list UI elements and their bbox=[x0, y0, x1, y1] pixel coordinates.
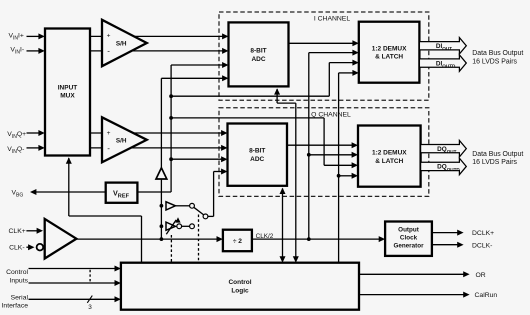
S/H amplifier Q bbox=[102, 117, 147, 162]
svg-text:CLK/2: CLK/2 bbox=[256, 233, 274, 240]
Q CHANNEL dashed box bbox=[219, 108, 429, 197]
junction clock vertical at CLK wire bbox=[160, 237, 164, 241]
bus arrow DI OUT bbox=[419, 38, 466, 54]
switch adjustable pole A bbox=[177, 224, 182, 229]
wire DCLK+ output bbox=[432, 232, 459, 234]
wire MUX to ADC I plus bbox=[90, 35, 224, 37]
output clock generator block bbox=[385, 222, 432, 256]
adjustable delay buffer bbox=[166, 222, 175, 230]
variable arrow through buffer bbox=[166, 220, 176, 234]
wire sample clock vertical bbox=[160, 78, 162, 239]
wire CLK/2 output bbox=[252, 238, 381, 240]
svg-text:CLK+: CLK+ bbox=[9, 228, 26, 235]
wire VIN Q+ input bbox=[27, 132, 41, 134]
svg-text:CalRun: CalRun bbox=[475, 292, 498, 299]
svg-text:16 LVDS Pairs: 16 LVDS Pairs bbox=[472, 159, 517, 166]
svg-text:I CHANNEL: I CHANNEL bbox=[314, 15, 350, 22]
wire MUX to ADC I minus bbox=[90, 50, 224, 52]
svg-text:3: 3 bbox=[88, 304, 92, 311]
wire sample clock to ADC I in4 bbox=[161, 77, 224, 79]
svg-text:8-BIT: 8-BIT bbox=[249, 148, 265, 155]
wire VIN Q- input bbox=[27, 147, 41, 149]
svg-text:Data Bus Output: Data Bus Output bbox=[472, 50, 523, 57]
svg-text:Interface: Interface bbox=[2, 302, 29, 309]
junction DEMUX Q in4 bbox=[337, 174, 341, 178]
8-bit ADC Q block bbox=[228, 124, 288, 186]
wire branch to DEMUX Q in4 bbox=[339, 175, 354, 177]
svg-text:S/H: S/H bbox=[116, 137, 127, 144]
input mux block bbox=[45, 29, 90, 156]
bus slash serial interface bbox=[87, 296, 92, 303]
wire switch net to ADC Q in4 bbox=[208, 215, 214, 217]
wire control inputs 2 bbox=[29, 282, 117, 284]
wire control vertical to DEMUX I and Q bbox=[338, 73, 340, 263]
1:2 demux latch Q block bbox=[358, 126, 421, 187]
svg-text:Inputs: Inputs bbox=[9, 278, 28, 285]
svg-text:-: - bbox=[107, 144, 110, 153]
wire serial interface bbox=[29, 298, 117, 300]
svg-text:÷ 2: ÷ 2 bbox=[233, 238, 242, 245]
svg-text:8-BIT: 8-BIT bbox=[250, 48, 266, 55]
wire OR output bbox=[359, 273, 465, 275]
VREF block bbox=[106, 183, 138, 203]
svg-text:Logic: Logic bbox=[231, 288, 249, 295]
svg-text:Serial: Serial bbox=[11, 294, 29, 301]
wire ADC Q to DEMUX Q data bbox=[287, 144, 354, 146]
svg-text:Control: Control bbox=[6, 269, 28, 276]
svg-text:INPUT: INPUT bbox=[58, 85, 78, 92]
junction CLK/2 node bbox=[307, 237, 311, 241]
svg-text:Output: Output bbox=[398, 227, 420, 234]
wire switch adjustable blade bbox=[181, 225, 189, 227]
wire CLK/2 branch to DEMUX Q in2 bbox=[309, 154, 354, 156]
wire CLK+ input bbox=[26, 230, 38, 232]
svg-text:DCLK-: DCLK- bbox=[472, 242, 492, 249]
clock input buffer bbox=[45, 219, 77, 259]
bus arrow DQ OUT bbox=[421, 140, 467, 156]
wire reference branch to DEMUX Q in3 bbox=[171, 117, 324, 119]
switch common pole bbox=[203, 214, 208, 219]
bus arrow DI OUTD bbox=[419, 55, 466, 71]
svg-text:& LATCH: & LATCH bbox=[375, 54, 403, 61]
wire VREF to reference net bbox=[137, 191, 171, 193]
duty cycle buffer fixed bbox=[166, 202, 175, 210]
ellipsis dashed between control inputs bbox=[89, 270, 91, 282]
dashed switch control line 2 bbox=[198, 215, 200, 263]
svg-text:Control: Control bbox=[228, 279, 251, 286]
svg-text:Clock: Clock bbox=[400, 235, 418, 242]
wire VIN I- input bbox=[27, 50, 41, 52]
wire VBG output bbox=[34, 191, 106, 193]
control logic block bbox=[121, 263, 359, 310]
junction buffer adjustable input bbox=[160, 224, 164, 228]
1:2 demux latch I block bbox=[359, 22, 420, 83]
svg-text:& LATCH: & LATCH bbox=[375, 158, 403, 165]
svg-text:1:2 DEMUX: 1:2 DEMUX bbox=[372, 149, 407, 156]
svg-text:+: + bbox=[107, 130, 111, 137]
switch blade bbox=[194, 207, 204, 215]
bus arrow DQ OUTD bbox=[421, 158, 467, 174]
I CHANNEL dashed box bbox=[219, 12, 429, 100]
junction reference lower bbox=[169, 157, 173, 161]
wire DCLK- output bbox=[432, 244, 459, 246]
svg-text:S/H: S/H bbox=[116, 41, 127, 48]
wire VIN I+ input bbox=[27, 35, 41, 37]
wire reference vertical net bbox=[170, 65, 172, 192]
wire buffer fixed output bbox=[175, 205, 189, 207]
wire reference to ADC Q in3 bbox=[171, 158, 223, 160]
wire MUX to ADC Q plus bbox=[90, 132, 223, 134]
svg-text:1:2 DEMUX: 1:2 DEMUX bbox=[372, 45, 407, 52]
svg-text:Generator: Generator bbox=[393, 243, 424, 250]
clock distribution buffer triangle bbox=[156, 168, 167, 179]
wire reference to ADC I in3 bbox=[171, 64, 224, 66]
wire control logic to input mux bbox=[66, 157, 72, 163]
wire control logic to ADC Q clock bbox=[280, 188, 286, 194]
svg-text:-: - bbox=[107, 47, 110, 56]
svg-text:ADC: ADC bbox=[251, 56, 265, 63]
switch fixed pole bbox=[190, 203, 195, 208]
junction reference upper bbox=[169, 94, 173, 98]
svg-text:OR: OR bbox=[476, 272, 486, 279]
divide by 2 block bbox=[223, 230, 252, 252]
svg-text:+: + bbox=[107, 32, 111, 39]
svg-text:Data Bus Output: Data Bus Output bbox=[472, 151, 523, 158]
svg-text:DCLK+: DCLK+ bbox=[472, 230, 494, 237]
svg-text:16 LVDS Pairs: 16 LVDS Pairs bbox=[472, 58, 517, 65]
svg-text:ADC: ADC bbox=[250, 156, 264, 163]
bubble CLK- inverter bbox=[37, 244, 44, 251]
8-bit ADC I block bbox=[229, 22, 289, 86]
wire MUX to ADC Q minus bbox=[90, 147, 223, 149]
switch adjustable pole B bbox=[190, 224, 195, 229]
dashed switch control line 1 bbox=[170, 235, 172, 263]
S/H amplifier I bbox=[102, 20, 147, 66]
wire ADC I to DEMUX I data bbox=[289, 42, 355, 44]
wire CLK buffer to divider bbox=[76, 238, 218, 240]
wire CalRun output bbox=[359, 294, 465, 296]
wire control logic to ADC I clock bbox=[274, 88, 280, 94]
wire control inputs 1 bbox=[29, 268, 117, 270]
svg-text:MUX: MUX bbox=[60, 93, 75, 100]
wire reference to DEMUX I bbox=[171, 95, 329, 97]
svg-text:CLK-: CLK- bbox=[9, 244, 25, 251]
wire CLK- input bbox=[26, 246, 30, 248]
junction buffer fixed input bbox=[160, 204, 164, 208]
wire CLK/2 vertical to DEMUX I bbox=[308, 53, 310, 239]
junction reference middle bbox=[169, 116, 173, 120]
junction CLK/2 DEMUX Q bbox=[307, 153, 311, 157]
